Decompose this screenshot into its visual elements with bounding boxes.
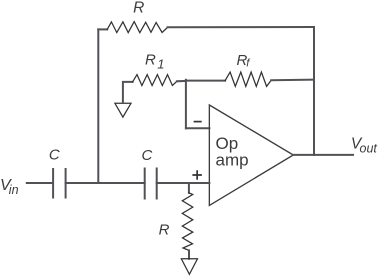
node junction vertical to minus input	[185, 80, 187, 129]
wire R1 to node	[177, 80, 186, 82]
wire top lead left	[98, 28, 107, 30]
capacitor C2 right plate	[156, 169, 158, 199]
svg-text:1: 1	[157, 57, 164, 72]
wire C1 to C2	[66, 182, 145, 184]
svg-text:f: f	[246, 57, 250, 69]
svg-text:C: C	[142, 147, 153, 164]
wire left vertical feedback	[97, 29, 99, 183]
plus input symbol	[192, 170, 202, 180]
svg-text:amp: amp	[216, 151, 249, 170]
wire Rf lead right	[271, 79, 314, 82]
resistor R (bottom)	[182, 193, 193, 251]
svg-text:C: C	[49, 147, 60, 164]
svg-text:in: in	[9, 183, 19, 197]
svg-text:out: out	[360, 141, 378, 155]
wire R bottom lead bottom	[188, 250, 190, 258]
capacitor C2 left plate	[144, 169, 146, 199]
resistor R1	[133, 75, 177, 86]
wire Rf lead left	[186, 80, 225, 82]
capacitor C1 left plate	[52, 169, 54, 198]
wire top horizontal	[168, 26, 314, 28]
svg-text:R: R	[145, 51, 156, 68]
wire R bottom lead top	[188, 183, 190, 193]
ground (bottom)	[181, 259, 197, 275]
minus input symbol	[194, 121, 202, 123]
ground (under R1)	[115, 103, 131, 117]
wire plus input	[157, 182, 210, 184]
svg-text:R: R	[133, 0, 144, 16]
wire right vertical	[313, 27, 315, 155]
resistor Rf	[225, 72, 271, 86]
svg-text:R: R	[159, 222, 170, 239]
wire Vin lead	[27, 182, 53, 184]
op-amp U1 triangle	[209, 105, 293, 205]
wire R1 ground lead	[123, 82, 133, 103]
capacitor C1 right plate	[65, 169, 67, 198]
resistor R (top)	[107, 22, 167, 33]
wire minus input	[186, 127, 209, 129]
wire output	[293, 154, 353, 156]
